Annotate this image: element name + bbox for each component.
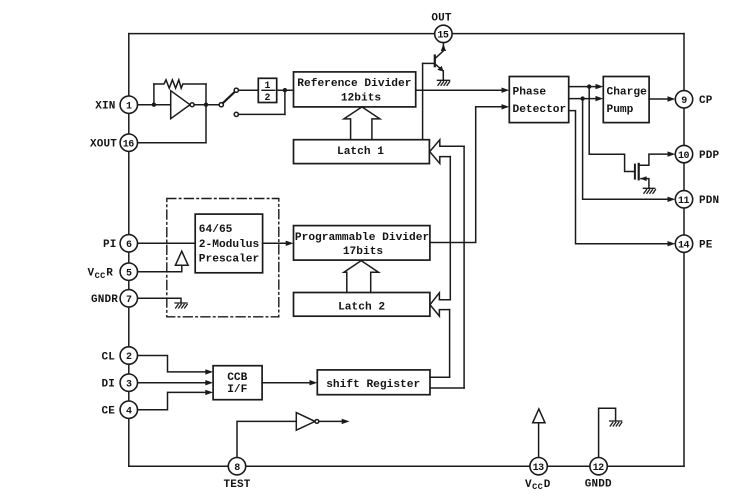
arrowhead test inverter output [342, 419, 350, 424]
wire reference divider output to phase detector [416, 89, 503, 91]
wire half divider to reference divider [277, 89, 294, 91]
wire left border [128, 34, 130, 467]
arrowhead into shift register [310, 380, 318, 385]
svg-text:8: 8 [234, 463, 240, 474]
wire latch1 lower to latch2 upper vertical [449, 157, 451, 300]
svg-text:15: 15 [437, 31, 449, 42]
wire GNDR [138, 298, 182, 303]
transistor Q2 PMOS channel bar [638, 164, 640, 179]
svg-text:Pump: Pump [607, 104, 634, 116]
pin 9 CP [675, 91, 692, 108]
svg-text:Detector: Detector [513, 104, 567, 116]
wire CCB to shift register [262, 382, 311, 384]
wire CE to CCB [138, 392, 207, 409]
wire latch1 upper to shift register vertical [463, 146, 465, 388]
ground Q1 emitter [437, 80, 449, 85]
svg-text:Latch 1: Latch 1 [337, 146, 384, 158]
svg-text:2-Modulus: 2-Modulus [199, 239, 260, 251]
block 64/65 2-Modulus Prescaler [195, 214, 262, 273]
svg-text:7: 7 [126, 295, 132, 306]
svg-text:DI: DI [101, 379, 115, 391]
wire feedback right vertical [205, 84, 207, 143]
svg-text:CCB: CCB [227, 372, 247, 384]
block Latch 1 [294, 140, 430, 164]
arrowhead into charge pump 2 [596, 96, 604, 101]
block Latch 2 [294, 293, 430, 317]
node oscillator input junction [152, 103, 156, 107]
arrowhead CL into CCB [205, 369, 213, 374]
block Reference Divider 12bits [294, 72, 416, 107]
wire programmable divider output [430, 107, 503, 243]
wire PDP gate feed [589, 87, 635, 172]
pin 11 PDN [675, 191, 692, 208]
pin 15 OUT [435, 25, 452, 42]
svg-text:GNDR: GNDR [91, 294, 118, 306]
latch 1 data arrow upper [430, 140, 464, 152]
svg-text:TEST: TEST [223, 479, 250, 491]
op-amp U1 crystal oscillator inverter [171, 91, 190, 119]
arrowhead CE into CCB [205, 390, 213, 395]
ground Q2 source [643, 188, 655, 193]
svg-text:CL: CL [101, 351, 115, 363]
wire shift register lower output [430, 387, 464, 389]
svg-text:Phase: Phase [513, 86, 547, 98]
wire VCCD [538, 423, 540, 458]
wire PI input to prescaler [138, 242, 196, 244]
svg-text:64/65: 64/65 [199, 224, 233, 236]
svg-text:Programmable Divider: Programmable Divider [295, 232, 429, 244]
svg-text:PDN: PDN [699, 195, 719, 207]
wire PE from phase detector [569, 111, 669, 244]
latch 2 load arrow (block arrow up) [344, 261, 379, 293]
wire PDN from output 2 junction [583, 99, 669, 200]
power symbol VCCR triangle [175, 251, 188, 265]
divider block 1/2 [258, 78, 276, 102]
wire latch2 lower to shift register vertical [449, 310, 451, 378]
wire phase detector output 1 [569, 86, 597, 88]
wire test inverter output [319, 420, 343, 422]
svg-text:Latch 2: Latch 2 [338, 301, 385, 313]
switch S1 lower contact [234, 112, 238, 116]
svg-text:10: 10 [678, 151, 690, 162]
node phase comparator output 1 junction [587, 84, 591, 88]
svg-text:PI: PI [103, 239, 117, 251]
wire XOUT [138, 142, 207, 144]
wire shift register upper output [430, 376, 450, 378]
pin 6 PI [120, 235, 137, 252]
svg-text:Reference Divider: Reference Divider [297, 78, 411, 90]
node phase comparator output 2 junction [580, 96, 584, 100]
svg-text:6: 6 [126, 240, 132, 251]
wire switch lower contact bypass [238, 113, 285, 115]
wire charge pump to CP pin [649, 98, 669, 100]
block shift Register [317, 370, 430, 395]
wire feedback left vertical [153, 84, 155, 105]
transistor Q2 PMOS gate bar [634, 165, 636, 179]
pin 3 DI [120, 374, 137, 391]
svg-text:13: 13 [533, 463, 545, 474]
op-amp U2 test inverter [296, 413, 315, 431]
ground GNDD [610, 421, 622, 426]
switch S1 upper contact [234, 88, 238, 92]
transistor Q2 source [641, 179, 649, 188]
svg-text:12bits: 12bits [341, 93, 382, 105]
svg-text:XIN: XIN [95, 101, 115, 113]
wire right border [683, 34, 685, 467]
svg-text:11: 11 [678, 196, 690, 207]
svg-text:14: 14 [678, 240, 690, 251]
arrowhead into pin 10 [668, 151, 676, 156]
pin 13 VCCD [530, 458, 547, 475]
switch S1 arm [223, 92, 235, 103]
wire TEST to inverter [237, 421, 296, 457]
svg-text:2: 2 [126, 352, 132, 363]
wire DI to CCB [138, 382, 207, 384]
svg-text:17bits: 17bits [343, 246, 384, 258]
pin 14 PE [675, 235, 692, 252]
arrowhead into phase detector input 2 [502, 104, 510, 109]
transistor Q1 NPN [434, 56, 436, 67]
wire bottom border [129, 465, 684, 467]
svg-text:3: 3 [126, 379, 132, 390]
svg-text:Prescaler: Prescaler [199, 254, 259, 266]
node oscillator output [204, 103, 208, 107]
svg-text:CP: CP [699, 95, 713, 107]
arrowhead into pin 11 [668, 197, 676, 202]
pin 4 CE [120, 401, 137, 418]
block Programmable Divider 17bits [294, 226, 430, 261]
svg-text:4: 4 [126, 406, 132, 417]
resistor R1 feedback [154, 80, 206, 88]
block Charge Pump [603, 77, 649, 123]
svg-text:CE: CE [101, 406, 115, 418]
svg-text:XOUT: XOUT [90, 139, 117, 151]
transistor Q1 base wire [423, 62, 435, 64]
arrowhead into pin 9 [668, 96, 676, 101]
wire GNDD [599, 408, 616, 457]
latch 1 data arrow lower [430, 152, 451, 164]
latch 2 data arrow lower [430, 305, 450, 316]
ground GNDR [175, 303, 187, 308]
pin 7 GNDR [120, 290, 137, 307]
svg-text:9: 9 [681, 96, 687, 107]
transistor Q2 drain to PDP pin [639, 154, 669, 165]
wire phase detector output 2 [569, 98, 597, 100]
svg-text:12: 12 [593, 463, 605, 474]
svg-text:PE: PE [699, 240, 713, 252]
svg-text:2: 2 [265, 92, 271, 103]
arrowhead into phase detector input 1 [502, 88, 510, 93]
svg-text:16: 16 [123, 139, 135, 150]
wire VCCR [138, 265, 182, 272]
arrowhead into charge pump 1 [596, 84, 604, 89]
pin 5 VCCR [120, 263, 137, 280]
pin 8 TEST [228, 458, 245, 475]
svg-text:I/F: I/F [227, 384, 247, 396]
wire top border [129, 33, 684, 35]
svg-text:1: 1 [265, 80, 271, 91]
latch 2 data arrow upper [430, 293, 450, 305]
pin 10 PDP [675, 145, 692, 162]
svg-text:GNDD: GNDD [585, 478, 612, 490]
wire XIN to inverter [138, 104, 171, 106]
wire Q1 base down to latch 1 [422, 63, 424, 139]
wire bypass vertical [284, 90, 286, 114]
node half divider output junction [283, 88, 287, 92]
svg-text:1: 1 [126, 101, 132, 112]
wire prescaler output to programmable divider [263, 242, 287, 244]
pin 2 CL [120, 347, 137, 364]
wire inverter output to switch [194, 104, 219, 106]
latch 1 load arrow (block arrow up) [344, 107, 380, 140]
switch S1 pole contact [219, 103, 223, 107]
wire CL to CCB [138, 356, 207, 372]
pin 1 XIN [120, 96, 137, 113]
arrowhead into programmable divider [286, 241, 294, 246]
svg-text:5: 5 [126, 268, 132, 279]
svg-text:OUT: OUT [431, 12, 452, 24]
block Phase Detector [509, 77, 568, 123]
wire switch upper contact to half divider [238, 89, 258, 91]
power symbol VCCD triangle [533, 409, 545, 423]
svg-text:Charge: Charge [607, 86, 648, 98]
svg-text:PDP: PDP [699, 150, 720, 162]
pin 12 GNDD [590, 458, 607, 475]
block CCB I/F [213, 366, 262, 400]
arrowhead DI into CCB [205, 380, 213, 385]
arrowhead into pin 14 [668, 241, 676, 246]
prescaler dash-dot boundary [167, 199, 279, 317]
svg-text:shift Register: shift Register [326, 379, 420, 391]
pin 16 XOUT [120, 134, 137, 151]
